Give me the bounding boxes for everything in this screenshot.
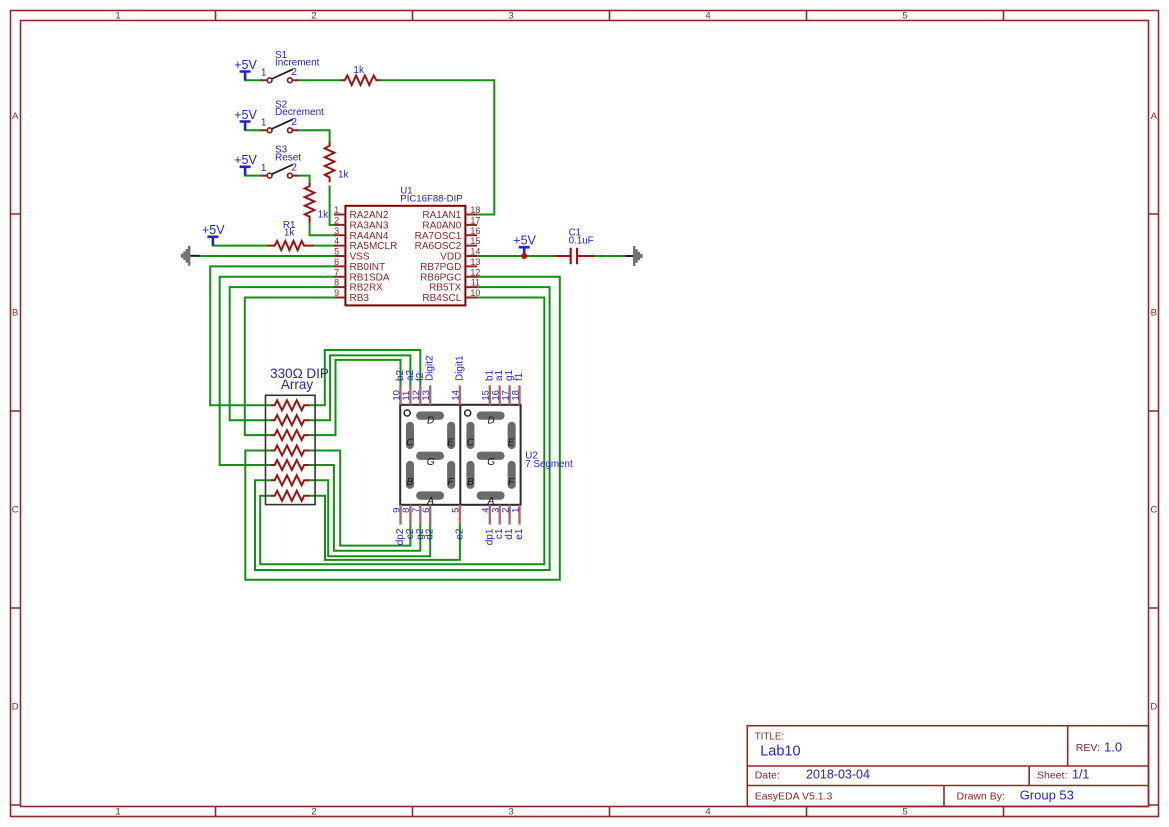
svg-text:18: 18 [470, 205, 480, 215]
resistor array RN1 330ohm DIP [266, 366, 329, 505]
array resistor 2 [271, 415, 309, 425]
wire net S3 to resistor to U1 pin3 [245, 176, 334, 236]
wire net S2 to resistor to U1 pin2 [245, 130, 334, 225]
svg-text:15: 15 [470, 236, 480, 246]
svg-text:14: 14 [451, 390, 462, 401]
svg-text:RB2RX: RB2RX [350, 283, 384, 294]
array resistor 7 [271, 491, 309, 501]
svg-text:1: 1 [261, 68, 267, 79]
svg-text:Digit2: Digit2 [425, 355, 436, 381]
svg-text:2018-03-04: 2018-03-04 [806, 768, 870, 782]
svg-text:1: 1 [261, 163, 267, 174]
digit 2 segment F [508, 461, 516, 489]
svg-text:Reset: Reset [275, 153, 301, 164]
svg-text:1: 1 [261, 118, 267, 129]
digit 1 segment B [406, 461, 414, 489]
svg-text:4: 4 [334, 236, 339, 246]
svg-text:RA6OSC2: RA6OSC2 [415, 241, 462, 252]
ground flag right (VDD net) [626, 246, 642, 266]
svg-text:1.0: 1.0 [1104, 739, 1122, 754]
U2 digit divider [459, 405, 461, 505]
U1 left pin names [350, 210, 398, 304]
svg-text:C: C [1150, 505, 1157, 516]
svg-text:11: 11 [471, 278, 480, 288]
7-segment U2 body [400, 405, 520, 505]
ruler numbers top [115, 11, 907, 22]
svg-text:RB3: RB3 [350, 293, 370, 304]
wire array row4 to display c2 [309, 451, 410, 546]
svg-text:Lab10: Lab10 [760, 744, 800, 760]
svg-text:e1: e1 [514, 528, 525, 540]
svg-text:1: 1 [334, 205, 339, 215]
digit 1 segment G [416, 452, 444, 460]
+5V flag at S3 [234, 153, 257, 175]
ruler numbers bottom [115, 807, 907, 818]
digit 2 segment G [477, 452, 505, 460]
wire U1 pin12 to array row4 [245, 277, 560, 580]
U1 right pin numbers [470, 205, 480, 298]
svg-text:D: D [427, 415, 434, 426]
svg-text:TITLE:: TITLE: [755, 732, 784, 743]
svg-text:REV:: REV: [1076, 742, 1100, 754]
title block labels [755, 732, 1100, 803]
ruler ticks right [1149, 214, 1159, 805]
array resistor 6 [271, 475, 309, 485]
ruler ticks left [11, 214, 21, 805]
svg-text:4: 4 [705, 807, 710, 818]
svg-text:RB0INT: RB0INT [350, 262, 386, 273]
+5V flag at S2 [234, 108, 257, 130]
U2 label [525, 450, 573, 470]
digit 1 segment D [416, 412, 444, 420]
svg-text:1k: 1k [353, 65, 365, 76]
svg-text:RB7PGD: RB7PGD [420, 262, 461, 273]
svg-text:12: 12 [470, 267, 480, 277]
resistor 1k (S2 net, vertical) [325, 142, 350, 183]
wire U1 pin7 to array row5 [220, 277, 334, 465]
array resistor 1 [271, 400, 309, 410]
U2 bottom net labels [395, 528, 525, 545]
svg-text:6: 6 [421, 508, 432, 513]
svg-text:Date:: Date: [755, 769, 780, 781]
svg-text:13: 13 [470, 257, 480, 267]
svg-text:VDD: VDD [440, 252, 461, 263]
svg-text:E: E [447, 437, 454, 448]
wire net VSS to ground flag [200, 255, 334, 257]
svg-text:VSS: VSS [350, 252, 370, 263]
TITLEBLOCK [747, 726, 1148, 807]
svg-text:Decrement: Decrement [275, 107, 324, 118]
svg-text:8: 8 [334, 278, 339, 288]
WIRES [200, 80, 626, 580]
U1 left pin numbers [334, 205, 339, 298]
svg-text:2: 2 [311, 11, 316, 22]
wire array row3 to display b2 [309, 360, 401, 435]
array resistor 5 [271, 460, 309, 470]
ruler ticks top [216, 11, 1004, 21]
U2 bottom pin stubs [401, 505, 520, 525]
wire U1 pin11 to array row6 [255, 287, 550, 570]
svg-text:2: 2 [291, 162, 297, 173]
svg-text:B: B [12, 308, 18, 319]
svg-text:2: 2 [311, 807, 316, 818]
svg-text:+5V: +5V [234, 58, 257, 72]
U2 top pin stubs [401, 385, 520, 404]
svg-text:5: 5 [451, 508, 462, 513]
svg-text:5: 5 [334, 247, 339, 257]
IC U1 PIC16F88-DIP [345, 186, 465, 306]
svg-text:9: 9 [334, 288, 339, 298]
title block row lines [747, 726, 1148, 807]
svg-text:C: C [406, 437, 414, 448]
svg-text:RA3AN3: RA3AN3 [350, 221, 389, 232]
switch S3 [261, 145, 302, 178]
svg-text:d2: d2 [425, 528, 436, 540]
svg-text:1/1: 1/1 [1072, 768, 1089, 782]
wire net VDD to C1 and flag [477, 255, 626, 257]
svg-text:+5V: +5V [513, 234, 536, 248]
digit 1 segment A [416, 491, 444, 499]
svg-text:0.1uF: 0.1uF [569, 236, 594, 247]
svg-text:EasyEDA V5.1.3: EasyEDA V5.1.3 [755, 790, 833, 802]
svg-text:1k: 1k [338, 169, 350, 180]
svg-text:1: 1 [115, 807, 120, 818]
switch S1 [261, 50, 320, 83]
digit 1 decimal circle [404, 410, 410, 416]
capacitor C1 [555, 227, 594, 264]
svg-text:RB4SCL: RB4SCL [422, 293, 461, 304]
array resistor 4 [271, 446, 309, 456]
digit 2 decimal circle [465, 410, 471, 416]
title block values [760, 739, 1122, 802]
svg-text:14: 14 [470, 247, 480, 257]
svg-text:Drawn By:: Drawn By: [957, 790, 1005, 802]
wire U1 pin9 to array row3 [245, 298, 334, 436]
digit 2 segment B [466, 461, 474, 489]
svg-text:G: G [427, 457, 435, 468]
svg-text:16: 16 [470, 226, 480, 236]
svg-text:1k: 1k [318, 209, 330, 220]
digit 1 segment C [406, 422, 414, 449]
digit 1 segment letters [406, 415, 454, 507]
svg-text:RA2AN2: RA2AN2 [350, 210, 389, 221]
+5V flag at VDD [513, 234, 536, 256]
svg-text:2: 2 [291, 117, 297, 128]
digit 1 segment E [447, 422, 455, 449]
svg-text:RB5TX: RB5TX [429, 283, 462, 294]
svg-text:Sheet:: Sheet: [1037, 769, 1067, 781]
svg-text:2: 2 [291, 67, 297, 78]
ground flag left (VSS) [182, 246, 200, 266]
ruler letters right [1150, 111, 1157, 713]
svg-text:+5V: +5V [202, 223, 225, 237]
svg-text:7 Segment: 7 Segment [525, 459, 573, 470]
svg-text:3: 3 [508, 807, 513, 818]
svg-text:3: 3 [334, 226, 339, 236]
svg-text:A: A [12, 111, 19, 122]
svg-text:RA5MCLR: RA5MCLR [350, 241, 398, 252]
svg-text:7: 7 [334, 267, 339, 277]
digit 1 segment F [447, 461, 455, 489]
svg-text:F: F [448, 477, 455, 488]
svg-text:B: B [1151, 308, 1157, 319]
svg-text:e2: e2 [454, 528, 465, 540]
svg-text:A: A [487, 496, 495, 507]
U1 left pin stubs [334, 215, 345, 298]
digit 2 segment A [477, 491, 505, 499]
svg-text:+5V: +5V [234, 108, 257, 122]
digit 2 segment letters [467, 415, 515, 507]
resistor 1k (S3 net, vertical) [305, 183, 329, 223]
svg-text:f1: f1 [514, 372, 525, 381]
resistor R1 1k [267, 220, 313, 250]
svg-text:C: C [12, 505, 19, 516]
svg-text:Group 53: Group 53 [1020, 788, 1074, 803]
svg-text:1k: 1k [284, 228, 294, 239]
ruler ticks bottom [216, 807, 1004, 817]
svg-text:D: D [1150, 702, 1157, 713]
U1 right pin names [415, 210, 462, 304]
svg-text:D: D [12, 702, 19, 713]
wire U1 pin8 to array row2 [230, 287, 334, 420]
svg-text:Array: Array [281, 377, 314, 392]
svg-text:18: 18 [510, 390, 521, 401]
svg-text:17: 17 [470, 215, 480, 225]
U2 top pin numbers [391, 390, 521, 401]
PARTS [182, 50, 641, 505]
svg-text:G: G [487, 457, 495, 468]
U2 bottom pin numbers [391, 508, 521, 513]
svg-text:RA0AN0: RA0AN0 [422, 221, 461, 232]
wire array row1 to display f2 [309, 350, 420, 405]
+5V flag at S1 [234, 58, 257, 80]
wire array row2 to display a2 [309, 355, 410, 420]
svg-text:2: 2 [334, 215, 339, 225]
U1 right pin stubs [465, 215, 477, 298]
ruler letters left [12, 111, 19, 713]
svg-text:Increment: Increment [275, 58, 320, 69]
svg-text:C: C [467, 437, 475, 448]
svg-text:B: B [407, 477, 414, 488]
svg-text:4: 4 [705, 11, 710, 22]
digit 2 segment D [477, 412, 505, 420]
svg-text:D: D [487, 415, 494, 426]
+5V flag at R1 [202, 223, 225, 245]
svg-text:A: A [1151, 111, 1158, 122]
wire net S1 to U1 pin18 [245, 80, 494, 214]
wire array row5 to display g2 [309, 465, 420, 551]
svg-text:13: 13 [421, 390, 432, 401]
svg-text:3: 3 [508, 11, 513, 22]
svg-text:5: 5 [902, 807, 907, 818]
switch S2 [261, 99, 325, 132]
svg-text:A: A [426, 496, 434, 507]
wire U1 pin10 to array row7 [260, 298, 544, 565]
svg-text:+5V: +5V [234, 153, 257, 167]
resistor 1k (S1 net) [341, 65, 380, 85]
U2 top net labels [395, 355, 525, 381]
digit 2 segment C [466, 422, 474, 449]
DISPLAY [391, 355, 573, 545]
array resistor 3 [271, 430, 309, 440]
svg-text:10: 10 [470, 288, 480, 298]
svg-text:Digit1: Digit1 [454, 355, 465, 381]
wire U1 pin6 to array row1 [210, 266, 334, 405]
title block outline [747, 726, 1148, 807]
svg-text:B: B [467, 477, 474, 488]
svg-text:1: 1 [115, 11, 120, 22]
wire array row6 to display d2 [309, 480, 430, 556]
svg-text:E: E [508, 437, 515, 448]
junction node VDD [521, 253, 527, 259]
svg-text:6: 6 [334, 257, 339, 267]
svg-text:RA1AN1: RA1AN1 [422, 210, 461, 221]
digit 2 segment E [508, 422, 516, 449]
wire array row7 to display e2 [309, 496, 460, 560]
svg-text:5: 5 [902, 11, 907, 22]
svg-text:1: 1 [510, 508, 521, 513]
svg-text:PIC16F88-DIP: PIC16F88-DIP [400, 194, 462, 205]
wire net +5V R1 to U1 pin4 [213, 245, 334, 247]
svg-text:F: F [508, 477, 515, 488]
